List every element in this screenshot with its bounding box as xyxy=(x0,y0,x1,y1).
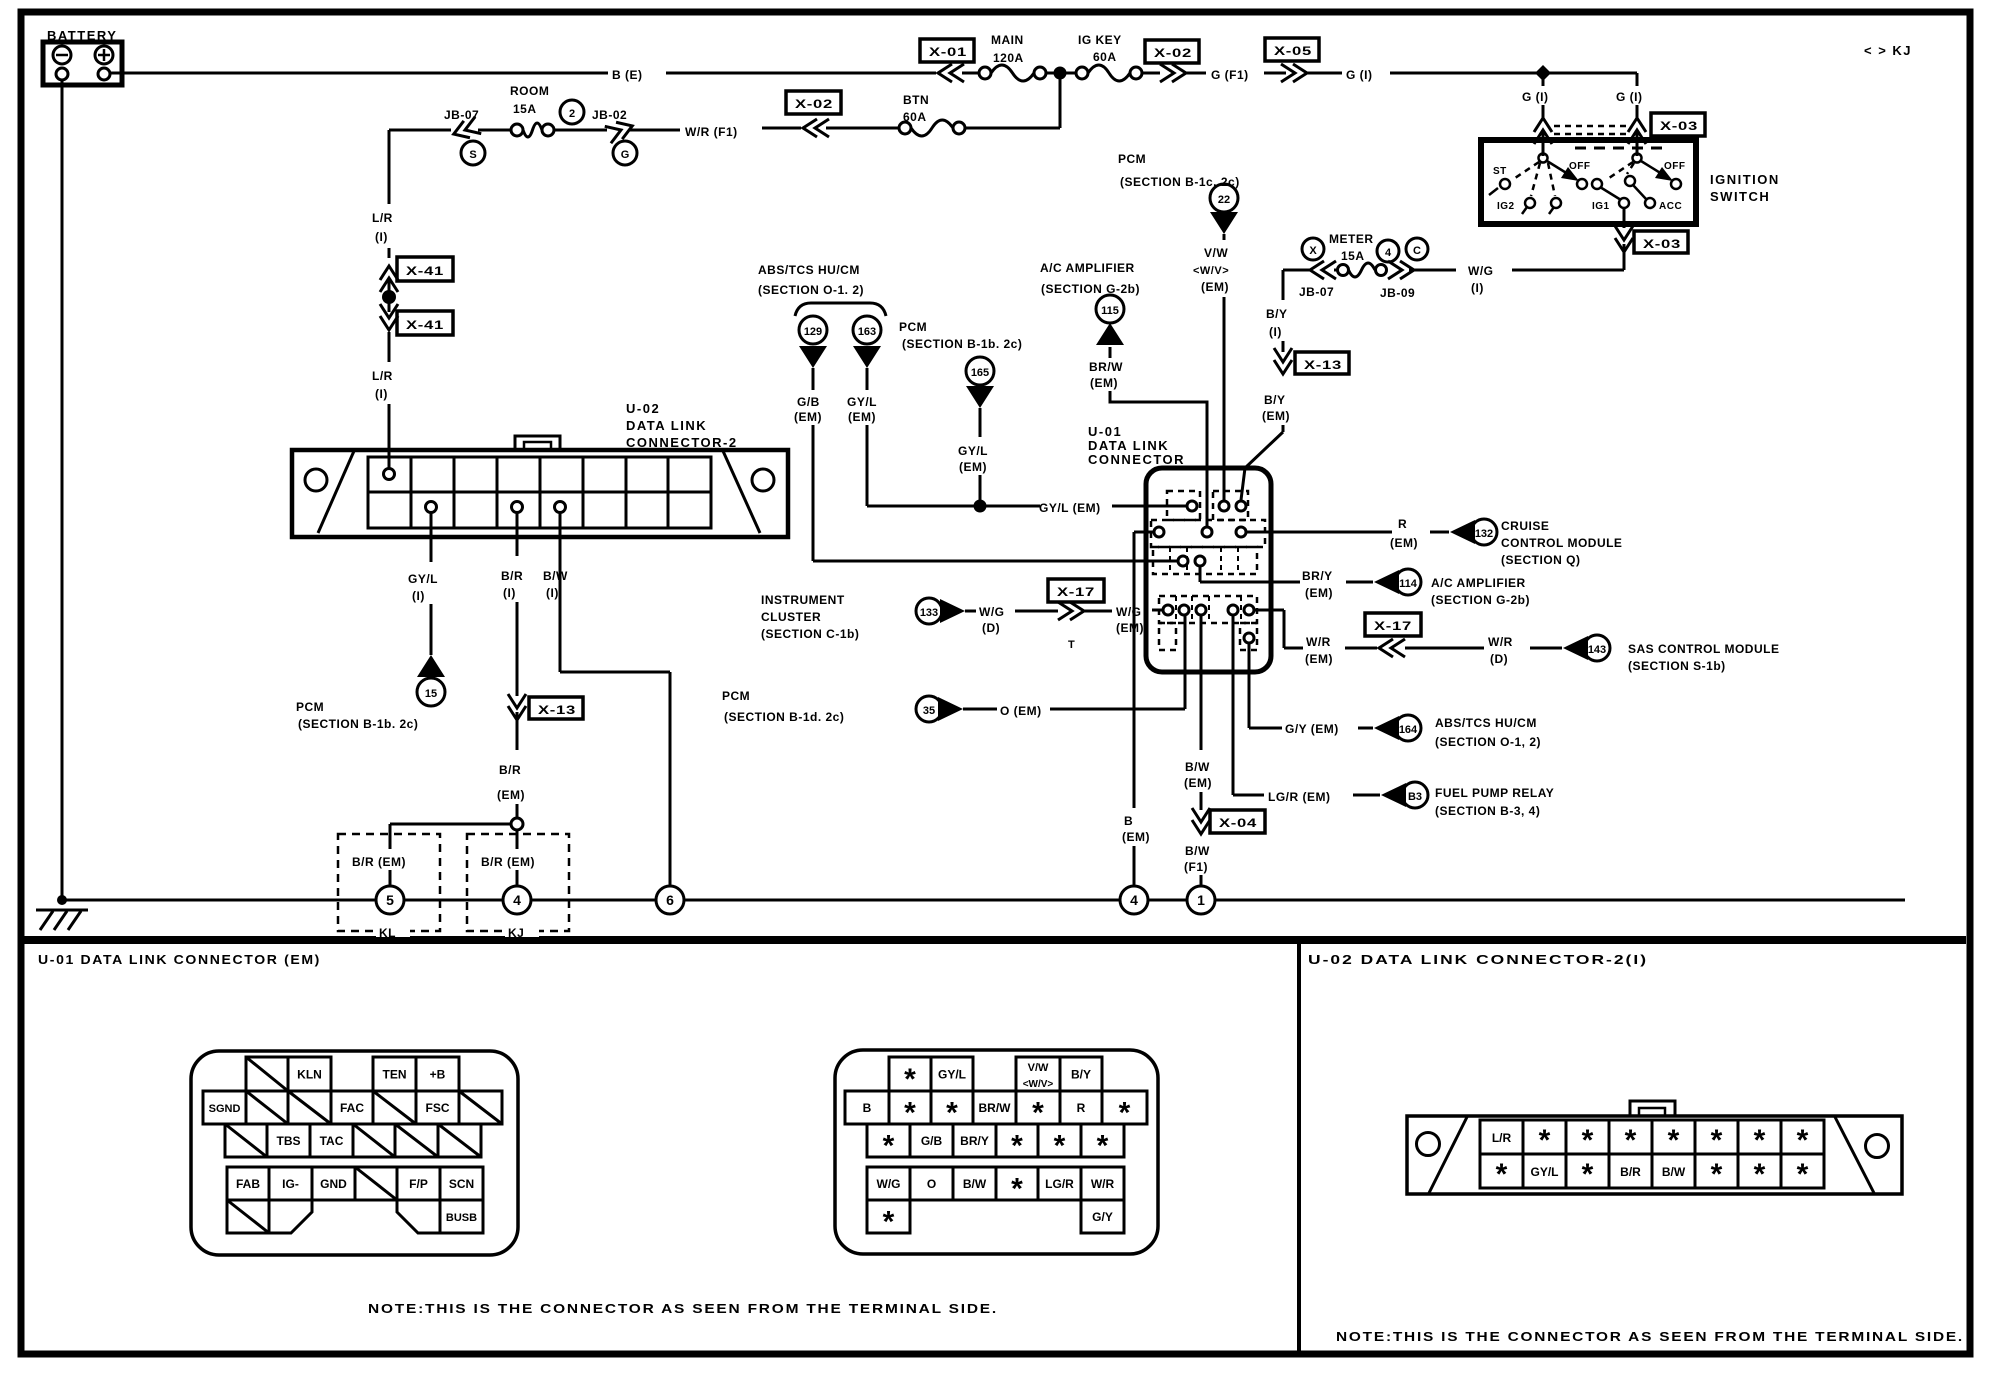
svg-text:LG/R (EM): LG/R (EM) xyxy=(1268,790,1331,804)
wire G/Y (EM) to ABS/TCS xyxy=(1249,643,1541,749)
svg-text:BR/Y: BR/Y xyxy=(1302,569,1333,583)
svg-text:JB-07: JB-07 xyxy=(1299,285,1334,299)
svg-text:BR/W: BR/W xyxy=(1089,360,1123,374)
U-01 pin R xyxy=(1236,527,1246,537)
svg-text:22: 22 xyxy=(1218,194,1230,206)
svg-text:CRUISE: CRUISE xyxy=(1501,519,1549,533)
svg-text:(SECTION B-1b. 2c): (SECTION B-1b. 2c) xyxy=(298,717,418,731)
svg-text:(I): (I) xyxy=(375,387,388,401)
wire B/R (EM) to splice xyxy=(497,712,525,830)
svg-text:TBS: TBS xyxy=(277,1134,301,1148)
svg-text:X-04: X-04 xyxy=(1219,816,1257,830)
node junction on B(E) at BTN branch xyxy=(1046,72,1076,75)
ground circle 5 xyxy=(376,886,404,914)
svg-text:T: T xyxy=(1068,639,1075,651)
svg-text:(SECTION B-1d. 2c): (SECTION B-1d. 2c) xyxy=(724,710,844,724)
svg-text:(EM): (EM) xyxy=(1122,830,1150,844)
svg-text:X-41: X-41 xyxy=(406,264,444,278)
svg-text:W/R: W/R xyxy=(1306,635,1331,649)
svg-text:5: 5 xyxy=(386,892,394,908)
U-02 pin L/R xyxy=(384,469,395,480)
svg-text:DATA LINK: DATA LINK xyxy=(1088,438,1169,453)
svg-text:CLUSTER: CLUSTER xyxy=(761,610,821,624)
connector X-17 on W/R xyxy=(1365,613,1484,657)
svg-text:FAB: FAB xyxy=(236,1177,260,1191)
node on L/R wire xyxy=(388,280,391,312)
wire BR/Y (EM) to A/C amplifier xyxy=(1200,566,1530,607)
A/C amplifier arrow 115 (BR/W) xyxy=(1040,261,1207,527)
svg-text:U-01 DATA LINK CONNECTOR (EM): U-01 DATA LINK CONNECTOR (EM) xyxy=(38,952,321,967)
svg-text:IG1: IG1 xyxy=(1592,201,1610,212)
svg-text:GY/L (EM): GY/L (EM) xyxy=(1039,501,1101,515)
svg-text:G: G xyxy=(621,149,630,161)
svg-text:(SECTION S-1b): (SECTION S-1b) xyxy=(1628,659,1726,673)
fuse BTN 60A xyxy=(826,93,965,136)
svg-text:W/G: W/G xyxy=(1116,605,1142,619)
svg-text:*: * xyxy=(1754,1158,1766,1191)
svg-text:35: 35 xyxy=(923,705,935,717)
svg-text:FSC: FSC xyxy=(426,1101,450,1115)
ground circle 1 xyxy=(1187,886,1215,914)
svg-text:R: R xyxy=(1398,517,1407,531)
U-01 pin G/Y xyxy=(1244,633,1254,643)
svg-text:PCM: PCM xyxy=(722,689,750,703)
wire L/R (I) vertical branch xyxy=(372,130,393,258)
svg-text:U-02: U-02 xyxy=(626,401,660,416)
svg-text:CONNECTOR: CONNECTOR xyxy=(1088,452,1185,467)
connector X-03 below switch xyxy=(1634,231,1688,253)
connector X-13 on B/Y xyxy=(1274,348,1349,374)
svg-text:B/Y: B/Y xyxy=(1266,307,1288,321)
svg-text:*: * xyxy=(1582,1124,1594,1157)
svg-text:JB-09: JB-09 xyxy=(1380,286,1415,300)
svg-text:<W/V>: <W/V> xyxy=(1023,1079,1054,1090)
svg-text:B/R: B/R xyxy=(1620,1165,1641,1179)
svg-text:X: X xyxy=(1309,245,1317,257)
svg-text:15: 15 xyxy=(425,688,437,700)
svg-text:OFF: OFF xyxy=(1569,161,1591,172)
svg-text:B: B xyxy=(1124,814,1133,828)
svg-text:SAS CONTROL MODULE: SAS CONTROL MODULE xyxy=(1628,642,1779,656)
wire B/W (I) label xyxy=(543,569,568,600)
svg-text:B (E): B (E) xyxy=(612,68,643,82)
svg-text:L/R: L/R xyxy=(1492,1131,1512,1145)
svg-text:LG/R: LG/R xyxy=(1045,1177,1074,1191)
svg-text:165: 165 xyxy=(971,367,989,379)
svg-text:U-02 DATA LINK CONNECTOR-2(I): U-02 DATA LINK CONNECTOR-2(I) xyxy=(1308,952,1648,967)
svg-text:FAC: FAC xyxy=(340,1101,364,1115)
svg-text:ROOM: ROOM xyxy=(510,84,549,98)
svg-text:(EM): (EM) xyxy=(794,410,822,424)
wire B(E) from battery positive xyxy=(110,72,608,75)
fuse ROOM 15A xyxy=(478,84,584,137)
svg-text:JB-02: JB-02 xyxy=(592,108,627,122)
svg-text:NOTE:THIS IS THE CONNECTOR AS: NOTE:THIS IS THE CONNECTOR AS SEEN FROM … xyxy=(368,1301,998,1316)
U-01 pin B(EM) xyxy=(1154,527,1164,537)
wire W/R (D) xyxy=(1488,635,1779,673)
svg-text:*: * xyxy=(1539,1124,1551,1157)
svg-text:(D): (D) xyxy=(982,621,1000,635)
svg-text:L/R: L/R xyxy=(372,369,393,383)
U-01 data link connector body xyxy=(1146,468,1271,672)
svg-text:G (I): G (I) xyxy=(1522,90,1549,104)
svg-text:B/R (EM): B/R (EM) xyxy=(352,855,406,869)
U-01 pin BR/W xyxy=(1202,527,1212,537)
svg-text:(F1): (F1) xyxy=(1184,860,1208,874)
wire GY/L (EM) into U-01 xyxy=(1039,501,1186,515)
svg-text:X-03: X-03 xyxy=(1643,237,1681,251)
svg-text:(SECTION B-1c. 2c): (SECTION B-1c. 2c) xyxy=(1120,175,1240,189)
ground circle 4 xyxy=(503,886,531,914)
splice branch to ground circle 4 xyxy=(481,830,535,887)
svg-text:CONTROL MODULE: CONTROL MODULE xyxy=(1501,536,1622,550)
svg-text:< > KJ: < > KJ xyxy=(1864,43,1912,58)
svg-text:(SECTION C-1b): (SECTION C-1b) xyxy=(761,627,859,641)
svg-text:B/R: B/R xyxy=(499,763,521,777)
connector X-01 xyxy=(920,39,974,82)
cruise control module label xyxy=(1501,519,1622,567)
fuse MAIN 120A xyxy=(962,33,1046,81)
svg-text:129: 129 xyxy=(804,326,822,338)
svg-text:G/B: G/B xyxy=(797,395,820,409)
svg-text:B/R (EM): B/R (EM) xyxy=(481,855,535,869)
svg-text:SGND: SGND xyxy=(209,1103,241,1115)
U-01 DATA LINK CONNECTOR title xyxy=(1088,424,1185,467)
svg-text:PCM: PCM xyxy=(899,320,927,334)
svg-text:TEN: TEN xyxy=(383,1068,407,1082)
svg-text:4: 4 xyxy=(1130,892,1138,908)
svg-text:O: O xyxy=(927,1177,936,1191)
svg-text:X-02: X-02 xyxy=(1154,46,1192,60)
svg-text:G (I): G (I) xyxy=(1616,90,1643,104)
svg-text:(D): (D) xyxy=(1490,652,1508,666)
svg-text:W/R: W/R xyxy=(1488,635,1513,649)
svg-text:B/R: B/R xyxy=(501,569,523,583)
svg-text:15A: 15A xyxy=(513,102,537,116)
svg-text:GY/L: GY/L xyxy=(958,444,988,458)
svg-text:ABS/TCS HU/CM: ABS/TCS HU/CM xyxy=(1435,716,1537,730)
svg-text:*: * xyxy=(1054,1130,1066,1163)
U-01 pin GY/L(EM) xyxy=(1187,501,1197,511)
svg-text:115: 115 xyxy=(1101,305,1119,317)
svg-text:(I): (I) xyxy=(412,589,425,603)
svg-text:143: 143 xyxy=(1588,644,1606,656)
svg-text:(SECTION B-1b. 2c): (SECTION B-1b. 2c) xyxy=(902,337,1022,351)
svg-text:R: R xyxy=(1077,1101,1086,1115)
svg-text:S: S xyxy=(469,149,476,161)
svg-text:(EM): (EM) xyxy=(1201,280,1229,294)
wire B/W (EM) to ground circle 1 xyxy=(1184,615,1212,834)
svg-text:SCN: SCN xyxy=(449,1177,474,1191)
svg-text:B/W: B/W xyxy=(1185,844,1210,858)
svg-text:SWITCH: SWITCH xyxy=(1710,189,1770,204)
fuse METER 15A xyxy=(1329,232,1399,277)
wire B/Y (I) xyxy=(1266,270,1288,352)
svg-text:4: 4 xyxy=(513,892,521,908)
svg-text:X-01: X-01 xyxy=(929,45,967,59)
svg-text:GY/L: GY/L xyxy=(847,395,877,409)
U-01 pin O xyxy=(1179,605,1189,615)
svg-text:IG2: IG2 xyxy=(1497,201,1515,212)
svg-text:G/Y: G/Y xyxy=(1092,1210,1113,1224)
svg-text:KL: KL xyxy=(379,926,396,940)
arrow 163 (GY/L) xyxy=(847,316,1040,506)
wire B/W (F1) xyxy=(1184,844,1210,887)
wire G(I) drops to ignition switch xyxy=(1522,73,1552,156)
wire L/R (I) to U-02 connector xyxy=(372,332,393,470)
junction JB-07 xyxy=(389,108,485,165)
svg-text:120A: 120A xyxy=(993,51,1024,65)
fuse IG KEY 60A xyxy=(1076,33,1160,81)
PCM label for 165 xyxy=(899,320,1022,351)
svg-text:GY/L: GY/L xyxy=(408,572,438,586)
svg-text:*: * xyxy=(1711,1158,1723,1191)
U-02 pin B/W xyxy=(555,502,566,513)
svg-text:*: * xyxy=(1496,1158,1508,1191)
wire B/Y (EM) into U-01 xyxy=(1241,393,1290,500)
svg-text:*: * xyxy=(1754,1124,1766,1157)
svg-text:(I): (I) xyxy=(546,586,559,600)
U-01 pin BR/Y xyxy=(1195,556,1205,566)
svg-text:(EM): (EM) xyxy=(1262,409,1290,423)
connector X-02 on B(E) xyxy=(1145,40,1206,82)
svg-text:*: * xyxy=(1797,1124,1809,1157)
svg-text:(SECTION G-2b): (SECTION G-2b) xyxy=(1431,593,1530,607)
connector X-04 xyxy=(1210,810,1265,833)
svg-text:GY/L: GY/L xyxy=(938,1068,966,1082)
svg-text:1: 1 xyxy=(1197,892,1205,908)
wire B/R (I) xyxy=(501,513,523,696)
svg-text:G/Y (EM): G/Y (EM) xyxy=(1285,722,1339,736)
svg-text:X-13: X-13 xyxy=(538,703,576,717)
U-01 terminal-side connector drawing xyxy=(191,1051,518,1255)
svg-text:KLN: KLN xyxy=(297,1068,322,1082)
svg-text:*: * xyxy=(883,1130,895,1163)
svg-text:ABS/TCS HU/CM: ABS/TCS HU/CM xyxy=(758,263,860,277)
svg-text:(EM): (EM) xyxy=(1116,621,1144,635)
svg-text:B/W: B/W xyxy=(1185,760,1210,774)
svg-text:*: * xyxy=(1668,1124,1680,1157)
U-01 wire-color connector drawing xyxy=(835,1050,1158,1254)
U-02 terminal-side connector drawing xyxy=(1630,1101,1675,1116)
svg-text:GY/L: GY/L xyxy=(1530,1165,1558,1179)
junction JB-02 xyxy=(554,108,637,165)
svg-text:KJ: KJ xyxy=(508,926,524,940)
svg-text:W/G: W/G xyxy=(1468,264,1494,278)
svg-text:O (EM): O (EM) xyxy=(1000,704,1042,718)
svg-text:(EM): (EM) xyxy=(848,410,876,424)
wire battery negative to ground bus xyxy=(61,80,64,900)
svg-text:(EM): (EM) xyxy=(497,788,525,802)
ground circle 6 xyxy=(656,886,684,914)
wire BTN branch xyxy=(965,73,1060,128)
svg-text:B3: B3 xyxy=(1408,791,1422,803)
svg-text:X-05: X-05 xyxy=(1274,44,1312,58)
svg-text:METER: METER xyxy=(1329,232,1374,246)
U-01 pin V/W xyxy=(1219,501,1229,511)
svg-text:*: * xyxy=(1011,1130,1023,1163)
svg-text:(I): (I) xyxy=(1269,325,1282,339)
svg-text:OFF: OFF xyxy=(1664,161,1686,172)
wire B/W (I) xyxy=(560,513,670,887)
instrument cluster arrow 133 xyxy=(761,593,1058,641)
svg-text:(EM): (EM) xyxy=(1390,536,1418,550)
svg-text:G (F1): G (F1) xyxy=(1211,68,1249,82)
svg-text:BTN: BTN xyxy=(903,93,929,107)
svg-text:60A: 60A xyxy=(1093,50,1117,64)
U-02 pin GY/L xyxy=(426,502,437,513)
svg-text:114: 114 xyxy=(1399,578,1418,590)
connector X-02 on BTN branch xyxy=(762,91,841,137)
svg-text:BUSB: BUSB xyxy=(446,1212,477,1224)
svg-text:(SECTION B-3, 4): (SECTION B-3, 4) xyxy=(1435,804,1540,818)
svg-text:ACC: ACC xyxy=(1659,201,1682,212)
connector X-13 on B/R xyxy=(508,694,583,720)
svg-text:W/G: W/G xyxy=(877,1177,901,1191)
svg-text:X-17: X-17 xyxy=(1057,585,1095,599)
svg-text:*: * xyxy=(1011,1173,1023,1206)
wire GY/L (I) to PCM arrow 15 xyxy=(296,513,445,731)
svg-text:133: 133 xyxy=(920,607,938,619)
svg-text:(EM): (EM) xyxy=(1305,586,1333,600)
svg-text:6: 6 xyxy=(666,892,674,908)
svg-text:(I): (I) xyxy=(375,230,388,244)
svg-text:<W/V>: <W/V> xyxy=(1193,265,1229,277)
U-01 pin B/Y xyxy=(1236,501,1246,511)
svg-text:IGNITION: IGNITION xyxy=(1710,172,1780,187)
svg-text:*: * xyxy=(1097,1130,1109,1163)
svg-text:+B: +B xyxy=(430,1068,446,1082)
svg-text:A/C AMPLIFIER: A/C AMPLIFIER xyxy=(1040,261,1135,275)
svg-text:BR/Y: BR/Y xyxy=(960,1134,989,1148)
svg-text:ST: ST xyxy=(1493,166,1507,177)
svg-text:IG-: IG- xyxy=(282,1177,299,1191)
wire R (EM) to cruise control xyxy=(1246,517,1497,550)
U-02 data link connector body xyxy=(292,436,788,537)
svg-text:INSTRUMENT: INSTRUMENT xyxy=(761,593,845,607)
svg-text:C: C xyxy=(1413,245,1421,257)
svg-text:IG KEY: IG KEY xyxy=(1078,33,1122,47)
svg-text:B/W: B/W xyxy=(963,1177,987,1191)
svg-text:(EM): (EM) xyxy=(1090,376,1118,390)
svg-text:B/Y: B/Y xyxy=(1264,393,1286,407)
svg-text:X-02: X-02 xyxy=(795,97,833,111)
svg-text:(I): (I) xyxy=(503,586,516,600)
arrow 129 (G/B) xyxy=(794,316,1177,561)
svg-text:BR/W: BR/W xyxy=(979,1101,1012,1115)
svg-text:*: * xyxy=(883,1206,895,1239)
ignition switch xyxy=(1481,140,1780,224)
svg-text:*: * xyxy=(1711,1124,1723,1157)
svg-text:*: * xyxy=(1797,1158,1809,1191)
svg-text:(SECTION O-1, 2): (SECTION O-1, 2) xyxy=(1435,735,1541,749)
svg-text:W/G: W/G xyxy=(979,605,1005,619)
U-01 pin W/R xyxy=(1244,605,1254,615)
svg-text:F/P: F/P xyxy=(409,1177,428,1191)
svg-text:B/W: B/W xyxy=(1662,1165,1686,1179)
connector X-41 upper xyxy=(380,257,453,292)
U-01 pin G/B xyxy=(1178,556,1188,566)
PCM arrow 22 (V/W) xyxy=(1118,152,1240,500)
svg-text:A/C AMPLIFIER: A/C AMPLIFIER xyxy=(1431,576,1526,590)
junction JB-07 on meter line xyxy=(1283,238,1336,299)
battery xyxy=(43,28,122,85)
connector X-17 on W/G xyxy=(1048,579,1112,651)
svg-text:B: B xyxy=(863,1101,872,1115)
svg-text:B/Y: B/Y xyxy=(1071,1068,1091,1082)
ground symbol xyxy=(36,910,88,930)
svg-text:B/W: B/W xyxy=(543,569,568,583)
U-02 pin B/R xyxy=(512,502,523,513)
svg-text:(EM): (EM) xyxy=(1305,652,1333,666)
connector X-41 lower xyxy=(380,304,453,335)
svg-text:G/B: G/B xyxy=(921,1134,943,1148)
svg-text:4: 4 xyxy=(1385,247,1392,259)
svg-text:X-17: X-17 xyxy=(1374,619,1412,633)
svg-text:V/W: V/W xyxy=(1028,1062,1049,1074)
svg-text:G (I): G (I) xyxy=(1346,68,1373,82)
svg-text:TAC: TAC xyxy=(320,1134,344,1148)
wire W/G (I) xyxy=(1409,244,1624,295)
svg-text:2: 2 xyxy=(569,108,575,120)
svg-text:U-01: U-01 xyxy=(1088,424,1122,439)
splice branch to ground circle 5 xyxy=(352,824,511,887)
svg-text:DATA LINK: DATA LINK xyxy=(626,418,707,433)
wire IG1 out of switch xyxy=(1615,208,1633,252)
U-01 pin B/W xyxy=(1196,605,1206,615)
svg-text:(EM): (EM) xyxy=(959,460,987,474)
U-01 pin W/G xyxy=(1163,605,1173,615)
svg-text:*: * xyxy=(1625,1124,1637,1157)
svg-text:MAIN: MAIN xyxy=(991,33,1024,47)
section divider line between schematic and connector panels xyxy=(21,936,1966,944)
svg-text:W/R (F1): W/R (F1) xyxy=(685,125,738,139)
svg-text:163: 163 xyxy=(858,326,876,338)
svg-text:132: 132 xyxy=(1475,528,1493,540)
wire B (EM) to ground circle 4 xyxy=(1122,532,1154,887)
ground circle 4 right xyxy=(1120,886,1148,914)
svg-text:W/R: W/R xyxy=(1091,1177,1115,1191)
dashed box KL xyxy=(338,834,440,940)
ground bus wire xyxy=(62,899,1905,902)
wire W/R (EM) to SAS control module xyxy=(1254,610,1377,666)
svg-text:*: * xyxy=(1582,1158,1594,1191)
wire LG/R (EM) to fuel pump relay xyxy=(1233,615,1554,818)
vertical divider between bottom panels xyxy=(1297,940,1301,1354)
svg-text:X-13: X-13 xyxy=(1304,358,1342,372)
svg-text:15A: 15A xyxy=(1341,249,1365,263)
svg-text:GND: GND xyxy=(320,1177,347,1191)
connector X-03 dashed tie xyxy=(1554,113,1705,136)
svg-text:NOTE:THIS IS THE CONNECTOR AS: NOTE:THIS IS THE CONNECTOR AS SEEN FROM … xyxy=(1336,1329,1964,1344)
svg-text:PCM: PCM xyxy=(296,700,324,714)
dashed box KJ xyxy=(467,834,569,940)
U-01 terminal cells xyxy=(246,1057,288,1091)
svg-text:(I): (I) xyxy=(1471,281,1484,295)
U-01 wire color cells xyxy=(889,1057,931,1091)
arrow 165 (GY/L) xyxy=(958,357,994,513)
svg-text:X-41: X-41 xyxy=(406,318,444,332)
ABS/TCS HU/CM header and arrows xyxy=(758,263,886,316)
svg-text:(EM): (EM) xyxy=(1184,776,1212,790)
svg-text:FUEL PUMP RELAY: FUEL PUMP RELAY xyxy=(1435,786,1554,800)
svg-text:PCM: PCM xyxy=(1118,152,1146,166)
svg-text:L/R: L/R xyxy=(372,211,393,225)
svg-text:X-03: X-03 xyxy=(1660,119,1698,133)
svg-text:(SECTION G-2b): (SECTION G-2b) xyxy=(1041,282,1140,296)
svg-text:(SECTION O-1. 2): (SECTION O-1. 2) xyxy=(758,283,864,297)
PCM arrow 35 (O wire) xyxy=(722,615,1185,724)
